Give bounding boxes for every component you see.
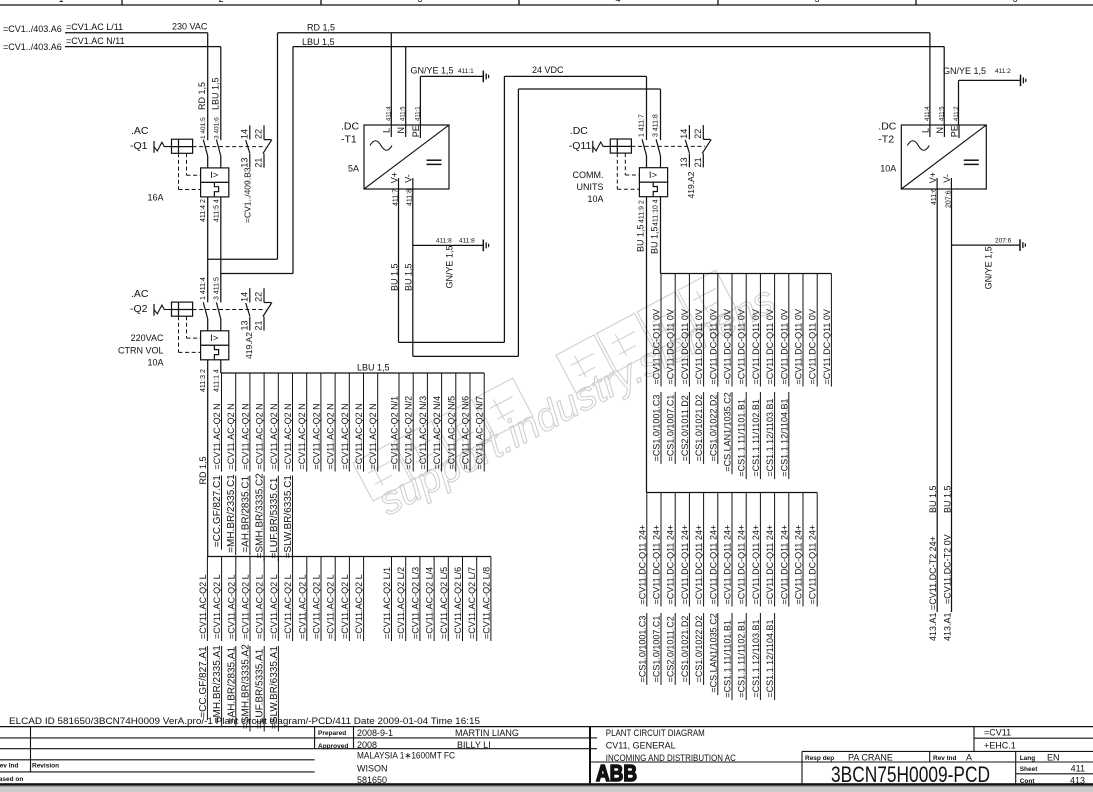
svg-text:=CV11.DC-Q11 0V: =CV11.DC-Q11 0V xyxy=(794,309,804,384)
svg-text:411:2: 411:2 xyxy=(995,68,1011,75)
svg-text:CTRN VOL: CTRN VOL xyxy=(118,345,164,355)
svg-text:Approved: Approved xyxy=(318,743,348,750)
svg-text:=CS1.0/1007.C1: =CS1.0/1007.C1 xyxy=(652,616,662,683)
svg-text:=CV11.AC-Q2 N: =CV11.AC-Q2 N xyxy=(255,403,265,469)
svg-text:=CV11.AC-Q2 N: =CV11.AC-Q2 N xyxy=(240,403,250,469)
svg-text:RD 1,5: RD 1,5 xyxy=(307,23,335,33)
svg-text:22: 22 xyxy=(254,292,264,302)
svg-text:+EHC.1: +EHC.1 xyxy=(984,741,1016,751)
svg-text:Sheet: Sheet xyxy=(1020,766,1039,773)
svg-text:BU 1,5: BU 1,5 xyxy=(404,263,414,291)
svg-text:=CV11.AC-Q2 L: =CV11.AC-Q2 L xyxy=(226,574,236,639)
svg-text:=CS1.0/1007.C1: =CS1.0/1007.C1 xyxy=(666,395,676,462)
svg-text:EN: EN xyxy=(1047,753,1060,763)
svg-text:I>: I> xyxy=(210,333,219,344)
svg-text:411:4: 411:4 xyxy=(925,106,931,121)
svg-text:Rev Ind: Rev Ind xyxy=(933,755,957,762)
svg-text:21: 21 xyxy=(693,157,703,167)
svg-text:=CV11.DC-Q11 0V: =CV11.DC-Q11 0V xyxy=(680,309,690,384)
svg-text:LBU 1,5: LBU 1,5 xyxy=(357,363,390,373)
svg-text:=CS1.1.12/1104.B1: =CS1.1.12/1104.B1 xyxy=(765,619,775,697)
svg-text:V-: V- xyxy=(942,174,952,183)
svg-text:3BCN75H0009-PCD: 3BCN75H0009-PCD xyxy=(831,762,990,787)
svg-text:411:1: 411:1 xyxy=(458,68,474,75)
svg-text:581650: 581650 xyxy=(357,775,387,785)
svg-text:BU 1,5: BU 1,5 xyxy=(928,485,938,513)
svg-text:ELCAD ID 581650/3BCN74H0009 Ve: ELCAD ID 581650/3BCN74H0009 VerA.pro/-1 … xyxy=(9,716,480,727)
svg-text:=CV11.DC-Q11 24+: =CV11.DC-Q11 24+ xyxy=(751,525,761,605)
svg-text:220VAC: 220VAC xyxy=(131,333,164,343)
svg-text:13: 13 xyxy=(240,158,250,168)
svg-text:=CS2.0/1011.D2: =CS2.0/1011.D2 xyxy=(680,395,690,461)
svg-text:GN/YE 1,5: GN/YE 1,5 xyxy=(943,66,986,76)
svg-text:=CV11.DC-Q11 0V: =CV11.DC-Q11 0V xyxy=(708,309,718,384)
svg-text:=CV11.AC-Q2 L: =CV11.AC-Q2 L xyxy=(269,574,279,639)
svg-text:.DC: .DC xyxy=(341,121,360,133)
svg-text:=CS1.0/1022.D2: =CS1.0/1022.D2 xyxy=(694,616,704,683)
svg-text:I>: I> xyxy=(649,170,658,181)
svg-text:=CV11.AC-Q2 L/2: =CV11.AC-Q2 L/2 xyxy=(396,567,406,639)
svg-text:=CV11.AC-Q2 L/3: =CV11.AC-Q2 L/3 xyxy=(410,567,420,639)
svg-text:13: 13 xyxy=(240,320,250,330)
svg-text:=CV11.DC-Q11 24+: =CV11.DC-Q11 24+ xyxy=(794,525,804,605)
svg-text:=CV11.AC-Q2 L/8: =CV11.AC-Q2 L/8 xyxy=(481,567,491,639)
svg-text:411:5: 411:5 xyxy=(939,106,945,121)
svg-text:=CV11.AC-Q2 N: =CV11.AC-Q2 N xyxy=(283,403,293,469)
svg-text:WISON: WISON xyxy=(357,763,388,773)
svg-text:=CV11.DC-Q11 0V: =CV11.DC-Q11 0V xyxy=(765,309,775,384)
svg-text:411:7: 411:7 xyxy=(392,189,399,206)
svg-text:1: 1 xyxy=(58,0,63,4)
svg-text:=CV11.AC-Q2 N: =CV11.AC-Q2 N xyxy=(340,403,350,469)
svg-text:=CS1.1.11/1102.B1: =CS1.1.11/1102.B1 xyxy=(751,399,761,476)
svg-text:=CV1.AC L/11: =CV1.AC L/11 xyxy=(66,22,123,32)
svg-text:-Q1: -Q1 xyxy=(130,140,148,152)
svg-text:=CV11.DC-Q11 0V: =CV11.DC-Q11 0V xyxy=(652,309,662,384)
svg-text:411:9 2: 411:9 2 xyxy=(639,200,646,223)
svg-text:=CV11.DC-Q11 0V: =CV11.DC-Q11 0V xyxy=(779,309,789,384)
svg-text:L: L xyxy=(382,128,392,133)
svg-text:GN/YE 1,5: GN/YE 1,5 xyxy=(411,66,454,76)
svg-text:14: 14 xyxy=(679,129,689,139)
svg-text:=CV11.AC-Q2 L: =CV11.AC-Q2 L xyxy=(198,574,208,639)
svg-text:=CV11.AC-Q2 N: =CV11.AC-Q2 N xyxy=(269,403,279,469)
svg-text:411:8: 411:8 xyxy=(459,238,475,245)
svg-text:MARTIN LIANG: MARTIN LIANG xyxy=(455,728,519,738)
svg-text:Released on: Released on xyxy=(0,776,23,783)
svg-text:=CV1../403.A6: =CV1../403.A6 xyxy=(3,42,62,52)
svg-text:CV11, GENERAL: CV11, GENERAL xyxy=(606,741,676,751)
svg-text:=CV11.AC-Q2 N: =CV11.AC-Q2 N xyxy=(226,403,236,469)
svg-text:10A: 10A xyxy=(880,164,896,174)
svg-text:=CV11.DC-Q11 24+: =CV11.DC-Q11 24+ xyxy=(708,525,718,605)
svg-text:=CV11.DC-Q11 24+: =CV11.DC-Q11 24+ xyxy=(737,525,747,605)
svg-text:=CV11.AC-Q2 L: =CV11.AC-Q2 L xyxy=(340,574,350,639)
svg-text:UNITS: UNITS xyxy=(577,182,604,192)
svg-text:=CV11.AC-Q2 L/7: =CV11.AC-Q2 L/7 xyxy=(467,567,477,639)
svg-text:=CV11.AC-Q2 L/6: =CV11.AC-Q2 L/6 xyxy=(453,567,463,639)
svg-text:413.A1: 413.A1 xyxy=(942,612,952,641)
svg-text:-T1: -T1 xyxy=(341,134,357,146)
svg-text:BILLY LI: BILLY LI xyxy=(457,740,491,750)
svg-text:10A: 10A xyxy=(587,194,603,204)
svg-text:=CV11.AC-Q2 N: =CV11.AC-Q2 N xyxy=(311,403,321,469)
svg-text:=CV11.DC-Q11 0V: =CV11.DC-Q11 0V xyxy=(723,309,733,384)
svg-text:1 411:7: 1 411:7 xyxy=(639,114,646,137)
svg-text:411:4: 411:4 xyxy=(386,106,392,121)
svg-text:LBU 1,5: LBU 1,5 xyxy=(211,77,221,110)
svg-text:N: N xyxy=(396,127,406,134)
svg-text:207:6: 207:6 xyxy=(945,190,952,208)
svg-text:=CV11.AC-Q2 L: =CV11.AC-Q2 L xyxy=(297,574,307,639)
svg-text:=CV11.DC-Q11 24+: =CV11.DC-Q11 24+ xyxy=(765,525,775,605)
svg-text:BU 1,5: BU 1,5 xyxy=(389,263,399,291)
svg-text:=CV11.AC-Q2 L: =CV11.AC-Q2 L xyxy=(312,574,322,639)
svg-text:=CV11.AC-Q2 L: =CV11.AC-Q2 L xyxy=(212,574,222,639)
svg-text:=CV11.AC-Q2 N/1: =CV11.AC-Q2 N/1 xyxy=(390,396,400,470)
svg-text:=CV11.DC-Q11 24+: =CV11.DC-Q11 24+ xyxy=(680,525,690,605)
svg-text:411: 411 xyxy=(1071,764,1085,774)
svg-text:GN/YE 1,5: GN/YE 1,5 xyxy=(445,245,455,288)
svg-text:=CV11.AC-Q2 L: =CV11.AC-Q2 L xyxy=(283,574,293,639)
svg-text:V+: V+ xyxy=(928,172,938,183)
svg-text:5A: 5A xyxy=(348,164,359,174)
svg-text:=CV11.AC-Q2 L: =CV11.AC-Q2 L xyxy=(241,574,251,639)
svg-text:=CS.LAN1/1035.C2: =CS.LAN1/1035.C2 xyxy=(708,613,718,692)
svg-text:3: 3 xyxy=(417,0,422,4)
svg-text:Resp dep: Resp dep xyxy=(805,755,834,762)
svg-text:413: 413 xyxy=(1070,776,1085,786)
svg-text:-T2: -T2 xyxy=(878,134,894,146)
svg-text:=CV11.AC-Q2 N: =CV11.AC-Q2 N xyxy=(326,403,336,469)
svg-text:ABB: ABB xyxy=(596,760,637,786)
svg-text:=CV11.DC-Q11 0V: =CV11.DC-Q11 0V xyxy=(694,309,704,384)
svg-text:=CV11.AC-Q2 N/6: =CV11.AC-Q2 N/6 xyxy=(461,396,471,470)
svg-text:411:6: 411:6 xyxy=(931,188,938,205)
svg-text:.AC: .AC xyxy=(131,288,149,300)
svg-text:=CV11.AC-Q2 N: =CV11.AC-Q2 N xyxy=(297,403,307,469)
svg-text:=CS1.1.11/1101.B1: =CS1.1.11/1101.B1 xyxy=(723,620,733,697)
svg-text:.DC: .DC xyxy=(878,121,897,133)
svg-text:COMM.: COMM. xyxy=(573,170,604,180)
svg-text:=CV1.AC N/11: =CV1.AC N/11 xyxy=(66,36,125,46)
svg-text:411:2: 411:2 xyxy=(954,106,960,121)
svg-text:GN/YE 1,5: GN/YE 1,5 xyxy=(984,246,994,289)
svg-text:411:4 2: 411:4 2 xyxy=(200,199,207,222)
svg-text:I>: I> xyxy=(210,170,219,181)
svg-text:3 401:6: 3 401:6 xyxy=(214,117,221,139)
svg-text:=CV11.AC-Q2 N: =CV11.AC-Q2 N xyxy=(212,403,222,469)
svg-text:V+: V+ xyxy=(389,172,399,183)
svg-text:=CV11.AC-Q2 L: =CV11.AC-Q2 L xyxy=(326,574,336,639)
svg-text:=CS1.1.11/1102.B1: =CS1.1.11/1102.B1 xyxy=(737,620,747,697)
svg-text:2008-9-1: 2008-9-1 xyxy=(357,728,393,738)
svg-text:=CV11.AC-Q2 L/5: =CV11.AC-Q2 L/5 xyxy=(439,567,449,639)
svg-text:16A: 16A xyxy=(147,193,163,203)
svg-text:=CS1.1.12/1104.B1: =CS1.1.12/1104.B1 xyxy=(779,398,789,476)
svg-text:3 411:5: 3 411:5 xyxy=(214,277,221,300)
svg-text:.AC: .AC xyxy=(131,125,149,137)
svg-text:411:1 4: 411:1 4 xyxy=(214,369,221,392)
svg-text:=CV11.DC-T2 0V: =CV11.DC-T2 0V xyxy=(942,534,952,604)
svg-text:MALAYSIA 1∗1600MT FC: MALAYSIA 1∗1600MT FC xyxy=(357,751,455,761)
svg-text:=CS1.0/1001.C3: =CS1.0/1001.C3 xyxy=(652,395,662,462)
svg-text:=CS1.1.11/1101.B1: =CS1.1.11/1101.B1 xyxy=(737,399,747,476)
svg-text:LBU 1,5: LBU 1,5 xyxy=(302,37,335,47)
svg-text:419.A2: 419.A2 xyxy=(686,171,696,198)
svg-text:10A: 10A xyxy=(147,358,163,368)
svg-text:=CV11.DC-Q11 24+: =CV11.DC-Q11 24+ xyxy=(666,525,676,605)
svg-text:=CS1.1.12/1103.B1: =CS1.1.12/1103.B1 xyxy=(765,398,775,476)
svg-text:N: N xyxy=(935,127,945,134)
svg-text:=CV11.DC-Q11 24+: =CV11.DC-Q11 24+ xyxy=(779,525,789,605)
svg-text:Revision: Revision xyxy=(32,763,59,770)
svg-text:=CV11.AC-Q2 N/7: =CV11.AC-Q2 N/7 xyxy=(475,396,485,470)
svg-text:=CS.LAN1/1035.C2: =CS.LAN1/1035.C2 xyxy=(723,392,733,471)
svg-text:411:5: 411:5 xyxy=(401,106,407,121)
svg-text:411:8: 411:8 xyxy=(407,189,414,206)
svg-text:411:8: 411:8 xyxy=(436,238,452,245)
svg-text:=CV11.AC-Q2 N/4: =CV11.AC-Q2 N/4 xyxy=(432,396,442,470)
svg-text:=CV11.DC-Q11 24+: =CV11.DC-Q11 24+ xyxy=(694,525,704,605)
svg-text:BU 1,5: BU 1,5 xyxy=(649,226,659,254)
svg-text:PE: PE xyxy=(949,125,959,137)
svg-text:=CV11.AC-Q2 L: =CV11.AC-Q2 L xyxy=(255,574,265,639)
svg-text:5: 5 xyxy=(814,0,819,4)
svg-text:PA CRANE: PA CRANE xyxy=(848,753,893,763)
svg-text:411:10 4: 411:10 4 xyxy=(652,199,659,226)
svg-text:13: 13 xyxy=(679,157,689,167)
svg-text:BU 1,5: BU 1,5 xyxy=(942,485,952,513)
svg-text:1 401:5: 1 401:5 xyxy=(200,117,207,139)
svg-text:L: L xyxy=(920,128,930,133)
svg-text:=CV11.DC-Q11 24+: =CV11.DC-Q11 24+ xyxy=(637,525,647,605)
svg-text:3 411:8: 3 411:8 xyxy=(652,114,659,137)
svg-text:=CV11.AC-Q2 N: =CV11.AC-Q2 N xyxy=(354,403,364,469)
svg-text:230 VAC: 230 VAC xyxy=(172,22,208,32)
svg-text:Rev Ind: Rev Ind xyxy=(0,763,19,770)
svg-text:=CV11.DC-Q11 0V: =CV11.DC-Q11 0V xyxy=(822,309,832,384)
svg-text:RD 1,5: RD 1,5 xyxy=(197,82,207,110)
svg-text:411:3 2: 411:3 2 xyxy=(200,369,207,392)
svg-text:=CV11.DC-Q11 24+: =CV11.DC-Q11 24+ xyxy=(652,525,662,605)
svg-text:22: 22 xyxy=(693,129,703,139)
svg-text:Cont: Cont xyxy=(1020,778,1036,785)
svg-text:21: 21 xyxy=(254,158,264,168)
svg-text:14: 14 xyxy=(240,292,250,302)
svg-text:=CV11.AC-Q2 L/1: =CV11.AC-Q2 L/1 xyxy=(382,567,392,639)
svg-text:=CS1.0/1001.C3: =CS1.0/1001.C3 xyxy=(637,616,647,683)
svg-text:=CV1../403.A6: =CV1../403.A6 xyxy=(3,24,62,34)
svg-text:1 411:4: 1 411:4 xyxy=(200,277,207,300)
svg-text:=CV1../409.B3: =CV1../409.B3 xyxy=(243,167,253,223)
svg-text:=CV11.DC-Q11 0V: =CV11.DC-Q11 0V xyxy=(737,309,747,384)
svg-text:413.A1: 413.A1 xyxy=(928,612,938,641)
svg-text:411:5 4: 411:5 4 xyxy=(214,199,221,222)
svg-text:=CV11.AC-Q2 L/4: =CV11.AC-Q2 L/4 xyxy=(425,567,435,639)
svg-text:Prepared: Prepared xyxy=(318,730,346,737)
svg-text:207:6: 207:6 xyxy=(995,238,1012,245)
svg-text:=CV11.AC-Q2 N/2: =CV11.AC-Q2 N/2 xyxy=(404,396,414,470)
svg-text:=CV11.AC-Q2 N/5: =CV11.AC-Q2 N/5 xyxy=(446,396,456,470)
svg-text:-Q11: -Q11 xyxy=(569,140,592,152)
svg-text:=CV11.DC-T2 24+: =CV11.DC-T2 24+ xyxy=(928,536,938,610)
svg-text:24 VDC: 24 VDC xyxy=(532,65,564,75)
svg-text:Lang: Lang xyxy=(1020,755,1036,762)
svg-text:=CS1.0/1022.D2: =CS1.0/1022.D2 xyxy=(708,395,718,462)
svg-text:411:1: 411:1 xyxy=(415,106,421,121)
svg-text:=CV11: =CV11 xyxy=(984,728,1011,738)
svg-text:=CS2.0/1011.C2: =CS2.0/1011.C2 xyxy=(666,616,676,682)
svg-text:PE: PE xyxy=(411,125,421,137)
svg-text:14: 14 xyxy=(240,129,250,139)
svg-text:21: 21 xyxy=(254,320,264,330)
svg-text:419.A2: 419.A2 xyxy=(244,332,254,359)
svg-text:=CS1.0/1021.D2: =CS1.0/1021.D2 xyxy=(694,395,704,462)
svg-text:PLANT CIRCUIT DIAGRAM: PLANT CIRCUIT DIAGRAM xyxy=(606,728,705,738)
svg-text:=CV11.DC-Q11 0V: =CV11.DC-Q11 0V xyxy=(666,309,676,384)
svg-text:22: 22 xyxy=(254,129,264,139)
svg-text:RD 1,5: RD 1,5 xyxy=(198,456,208,484)
svg-text:=CS1.0/1021.D2: =CS1.0/1021.D2 xyxy=(680,616,690,683)
svg-text:=CV11.DC-Q11 0V: =CV11.DC-Q11 0V xyxy=(808,309,818,384)
svg-text:2008: 2008 xyxy=(357,740,377,750)
svg-text:=CV11.AC-Q2 L: =CV11.AC-Q2 L xyxy=(354,574,364,639)
svg-text:=CV11.DC-Q11 24+: =CV11.DC-Q11 24+ xyxy=(723,525,733,605)
svg-text:=CV11.AC-Q2 N/3: =CV11.AC-Q2 N/3 xyxy=(418,396,428,470)
svg-text:.DC: .DC xyxy=(570,125,589,137)
svg-text:-Q2: -Q2 xyxy=(130,303,148,315)
svg-text:4: 4 xyxy=(615,0,620,4)
svg-text:6: 6 xyxy=(1012,0,1017,4)
svg-text:A: A xyxy=(966,753,972,763)
svg-text:=CV11.AC-Q2 N: =CV11.AC-Q2 N xyxy=(368,403,378,469)
svg-text:BU 1,5: BU 1,5 xyxy=(636,224,646,252)
svg-text:V-: V- xyxy=(404,174,414,183)
svg-text:=CS1.1.12/1103.B1: =CS1.1.12/1103.B1 xyxy=(751,619,761,697)
svg-text:=CV11.DC-Q11 0V: =CV11.DC-Q11 0V xyxy=(751,309,761,384)
svg-text:=CV11.DC-Q11 24+: =CV11.DC-Q11 24+ xyxy=(808,525,818,605)
svg-text:2: 2 xyxy=(218,0,223,4)
